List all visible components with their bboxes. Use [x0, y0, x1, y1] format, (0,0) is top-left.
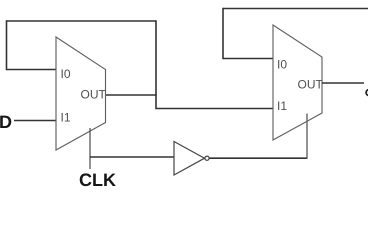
input label CLK glyph C [80, 173, 92, 186]
input label CLK glyph K [104, 174, 116, 186]
wire feedback1 right vertical (node OUT1) [155, 20, 157, 108]
wire feedback1 left vertical [6, 20, 8, 70]
wire inverter output (CLKB) [209, 157, 307, 159]
wire feedback2 top [223, 8, 368, 10]
svg-text:I0: I0 [277, 58, 287, 72]
mux U1 body [56, 37, 106, 150]
wire node CLK horizontal to inverter [90, 156, 174, 158]
svg-text:OUT: OUT [81, 88, 107, 102]
svg-text:I1: I1 [61, 111, 71, 125]
wire mux U2 select vertical [306, 114, 308, 159]
wire mux U2 OUT to output Q [322, 82, 364, 84]
svg-text:I0: I0 [61, 67, 71, 81]
input label D [0, 116, 11, 128]
wire OUT1 to mux U2 I1 [155, 108, 273, 110]
wire feedback1 top [7, 20, 157, 22]
wire mux U1 select vertical [89, 128, 91, 169]
mux U2 body [273, 25, 322, 140]
wire feedback2 bottom to mux U2 I0 [223, 58, 273, 60]
svg-text:OUT: OUT [298, 78, 324, 92]
wire feedback2 left vertical [222, 8, 224, 59]
wire feedback1 bottom to mux U1 I0 [7, 69, 57, 71]
inverter U3 bubble [205, 156, 209, 160]
wire input D to mux U1 I1 [14, 120, 56, 122]
wire mux U1 OUT [106, 94, 157, 96]
output label Q (clipped at edge) [366, 90, 368, 96]
inverter U3 triangle [174, 142, 205, 176]
svg-text:I1: I1 [277, 99, 287, 113]
input label CLK glyph L [93, 174, 102, 186]
